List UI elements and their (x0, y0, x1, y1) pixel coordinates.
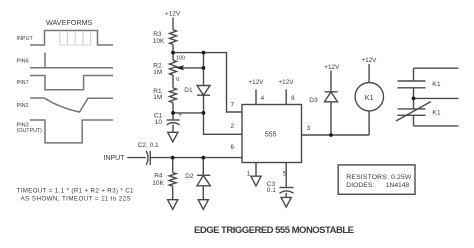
svg-text:+12V: +12V (361, 57, 377, 64)
svg-text:DIODES:: DIODES: (346, 182, 374, 189)
svg-text:D1: D1 (184, 87, 193, 94)
svg-text:6: 6 (231, 144, 235, 151)
svg-text:1M: 1M (153, 94, 162, 101)
svg-text:10: 10 (155, 119, 163, 126)
svg-text:4: 4 (261, 95, 265, 102)
svg-text:+12V: +12V (324, 64, 340, 71)
svg-text:AS SHOWN, TIMEOUT = 11 to 22S: AS SHOWN, TIMEOUT = 11 to 22S (21, 196, 131, 203)
svg-text:PIN2: PIN2 (17, 103, 29, 109)
svg-text:100: 100 (176, 56, 185, 62)
svg-text:10K: 10K (153, 38, 165, 45)
svg-text:R3: R3 (153, 31, 162, 38)
svg-text:TIMEOUT = 1.1 * (R1 + R2 + R3): TIMEOUT = 1.1 * (R1 + R2 + R3) * C1 (17, 187, 135, 194)
svg-text:K1: K1 (365, 93, 374, 102)
svg-text:0: 0 (176, 77, 179, 83)
svg-text:INPUT: INPUT (17, 36, 34, 42)
svg-text:555: 555 (265, 132, 277, 139)
svg-text:K1: K1 (432, 109, 441, 116)
svg-text:D3: D3 (309, 97, 318, 104)
svg-text:R4: R4 (154, 172, 163, 179)
svg-text:8: 8 (291, 95, 295, 102)
svg-text:2: 2 (231, 123, 235, 130)
svg-text:3: 3 (307, 125, 311, 132)
svg-text:+12V: +12V (165, 11, 181, 18)
svg-text:EDGE TRIGGERED 555 MONOSTABLE: EDGE TRIGGERED 555 MONOSTABLE (194, 225, 354, 236)
svg-text:RESISTORS: 0.25W: RESISTORS: 0.25W (346, 174, 412, 181)
svg-text:7: 7 (231, 102, 235, 109)
svg-text:+: + (179, 113, 183, 119)
svg-text:10K: 10K (152, 180, 164, 187)
svg-text:PIN7: PIN7 (17, 80, 29, 86)
svg-text:1M: 1M (153, 69, 162, 76)
svg-text:INPUT: INPUT (104, 155, 126, 162)
svg-text:+12V: +12V (278, 79, 294, 86)
svg-text:1: 1 (247, 170, 251, 177)
svg-text:K1: K1 (432, 81, 441, 88)
svg-text:C2, 0.1: C2, 0.1 (138, 142, 159, 149)
svg-text:1N4148: 1N4148 (386, 182, 410, 189)
svg-text:(OUTPUT): (OUTPUT) (17, 128, 43, 134)
svg-text:0.1: 0.1 (267, 187, 276, 194)
svg-text:5: 5 (283, 170, 287, 177)
svg-text:PIN6: PIN6 (17, 58, 29, 64)
svg-text:WAVEFORMS: WAVEFORMS (46, 18, 93, 27)
svg-text:+12V: +12V (248, 79, 264, 86)
svg-text:D2: D2 (185, 173, 194, 180)
